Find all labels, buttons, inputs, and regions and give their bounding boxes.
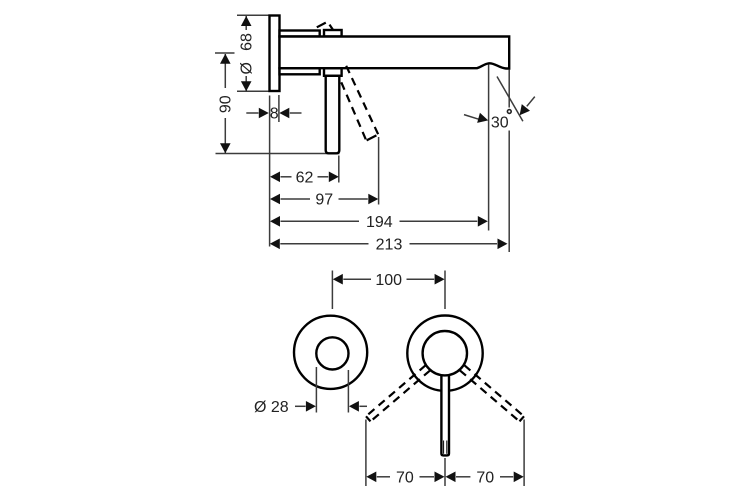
handle lever — [326, 76, 340, 154]
extension line centre lever — [444, 458, 446, 486]
right cartridge inner circle — [423, 331, 467, 375]
spout body — [280, 37, 510, 69]
dashed rotated cap marks above spout — [317, 23, 334, 31]
dimension 62 — [270, 170, 339, 187]
handle cap above spout — [324, 30, 342, 37]
wall plate (escutcheon) — [270, 16, 280, 92]
extension line spout centerline — [215, 52, 235, 54]
dimension 8 — [246, 105, 301, 122]
handle lever front view — [441, 362, 449, 455]
svg-text:70: 70 — [476, 470, 494, 487]
extension line plate right face — [278, 95, 280, 122]
dimension 97 — [270, 192, 378, 209]
svg-text:100: 100 — [375, 272, 402, 289]
svg-text:213: 213 — [376, 237, 403, 254]
dimension 90 line — [218, 54, 235, 154]
dimension 213 — [270, 237, 508, 254]
svg-text:194: 194 — [366, 214, 393, 231]
30 degree arrow angled — [515, 97, 534, 119]
extension line wall face (long) — [269, 96, 271, 247]
extension line spout outlet / 194 — [488, 65, 490, 231]
dimension dia 28 — [254, 399, 367, 416]
left rosette outer circle — [294, 316, 367, 389]
extension line dashed lever end — [378, 137, 380, 205]
dashed lever rotated left — [366, 365, 430, 421]
30 degree arrow horizontal — [464, 113, 490, 126]
extension line plate bottom — [237, 90, 270, 92]
dashed lever rotated right — [460, 365, 524, 421]
svg-text:70: 70 — [396, 470, 414, 487]
dimension 194 — [270, 214, 488, 231]
svg-text:8: 8 — [270, 105, 279, 122]
lower collar sleeve — [280, 68, 320, 74]
extension line left rosette centre — [331, 271, 333, 310]
extension line inner circle left tangent — [315, 367, 317, 413]
30 degree direction line — [497, 77, 523, 122]
degree symbol — [507, 110, 511, 114]
extension line spout end / 213 — [508, 70, 510, 108]
dimension 70 right — [446, 470, 524, 487]
dimension 100 — [333, 272, 445, 289]
right rosette outer circle — [407, 316, 482, 391]
handle hub below spout — [324, 68, 342, 76]
extension line plate top — [237, 14, 270, 16]
upper collar sleeve — [280, 31, 320, 37]
extension line handle end — [338, 156, 340, 183]
dashed rotated lever (30 deg) — [341, 66, 378, 141]
svg-text:90: 90 — [218, 95, 235, 113]
extension line right lever end — [523, 420, 525, 487]
left spout stub inner circle — [316, 337, 348, 369]
extension line inner circle right tangent — [347, 370, 349, 413]
handle lever tip inner lines — [443, 441, 445, 454]
extension line right rosette centre — [444, 271, 446, 310]
dimension 70 left — [366, 470, 444, 487]
dimension 68 line — [239, 16, 256, 91]
svg-text:30: 30 — [491, 114, 509, 131]
svg-text:Ø 28: Ø 28 — [254, 399, 289, 416]
extension line handle bottom — [216, 153, 340, 155]
svg-text:68: 68 — [239, 33, 256, 51]
svg-text:62: 62 — [296, 170, 314, 187]
extension line left lever end — [365, 420, 367, 487]
svg-text:97: 97 — [315, 192, 333, 209]
svg-text:Ø: Ø — [239, 62, 256, 74]
